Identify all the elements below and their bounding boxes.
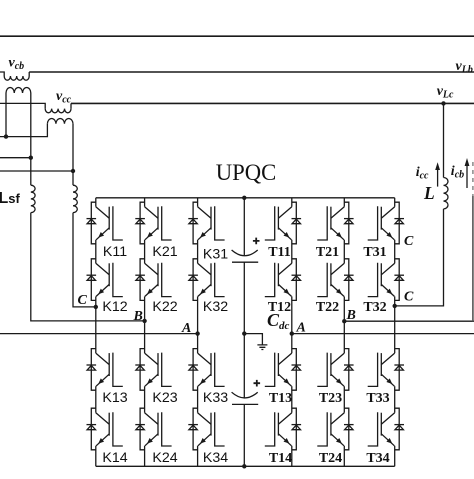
svg-text:K31: K31 [203, 247, 228, 263]
svg-text:C: C [404, 234, 414, 249]
svg-text:K34: K34 [203, 450, 228, 466]
svg-text:T21: T21 [316, 245, 339, 260]
svg-text:T32: T32 [363, 300, 386, 315]
svg-text:T24: T24 [319, 451, 342, 466]
svg-text:K13: K13 [102, 390, 127, 406]
svg-text:C: C [404, 290, 414, 305]
svg-text:K23: K23 [152, 390, 177, 406]
svg-text:Lsf: Lsf [0, 190, 21, 207]
svg-text:T23: T23 [319, 391, 342, 406]
svg-text:K33: K33 [203, 390, 228, 406]
svg-text:T33: T33 [366, 391, 389, 406]
svg-text:A: A [296, 321, 306, 336]
svg-text:T31: T31 [363, 245, 386, 260]
svg-text:K14: K14 [102, 450, 127, 466]
svg-text:K11: K11 [103, 244, 127, 260]
svg-text:K24: K24 [152, 450, 177, 466]
svg-text:T14: T14 [269, 451, 292, 466]
svg-text:A: A [181, 321, 191, 336]
svg-text:K32: K32 [203, 299, 228, 315]
svg-text:B: B [133, 309, 143, 324]
svg-text:T11: T11 [268, 245, 291, 260]
svg-text:T34: T34 [366, 451, 389, 466]
svg-text:T13: T13 [269, 391, 292, 406]
svg-text:UPQC: UPQC [216, 160, 277, 185]
svg-text:K12: K12 [102, 299, 127, 315]
svg-text:T22: T22 [316, 300, 339, 315]
svg-text:C: C [78, 293, 88, 308]
svg-text:T12: T12 [268, 300, 291, 315]
svg-text:L: L [423, 183, 435, 203]
svg-text:K22: K22 [152, 299, 177, 315]
svg-text:B: B [346, 308, 356, 323]
svg-text:K21: K21 [152, 244, 177, 260]
